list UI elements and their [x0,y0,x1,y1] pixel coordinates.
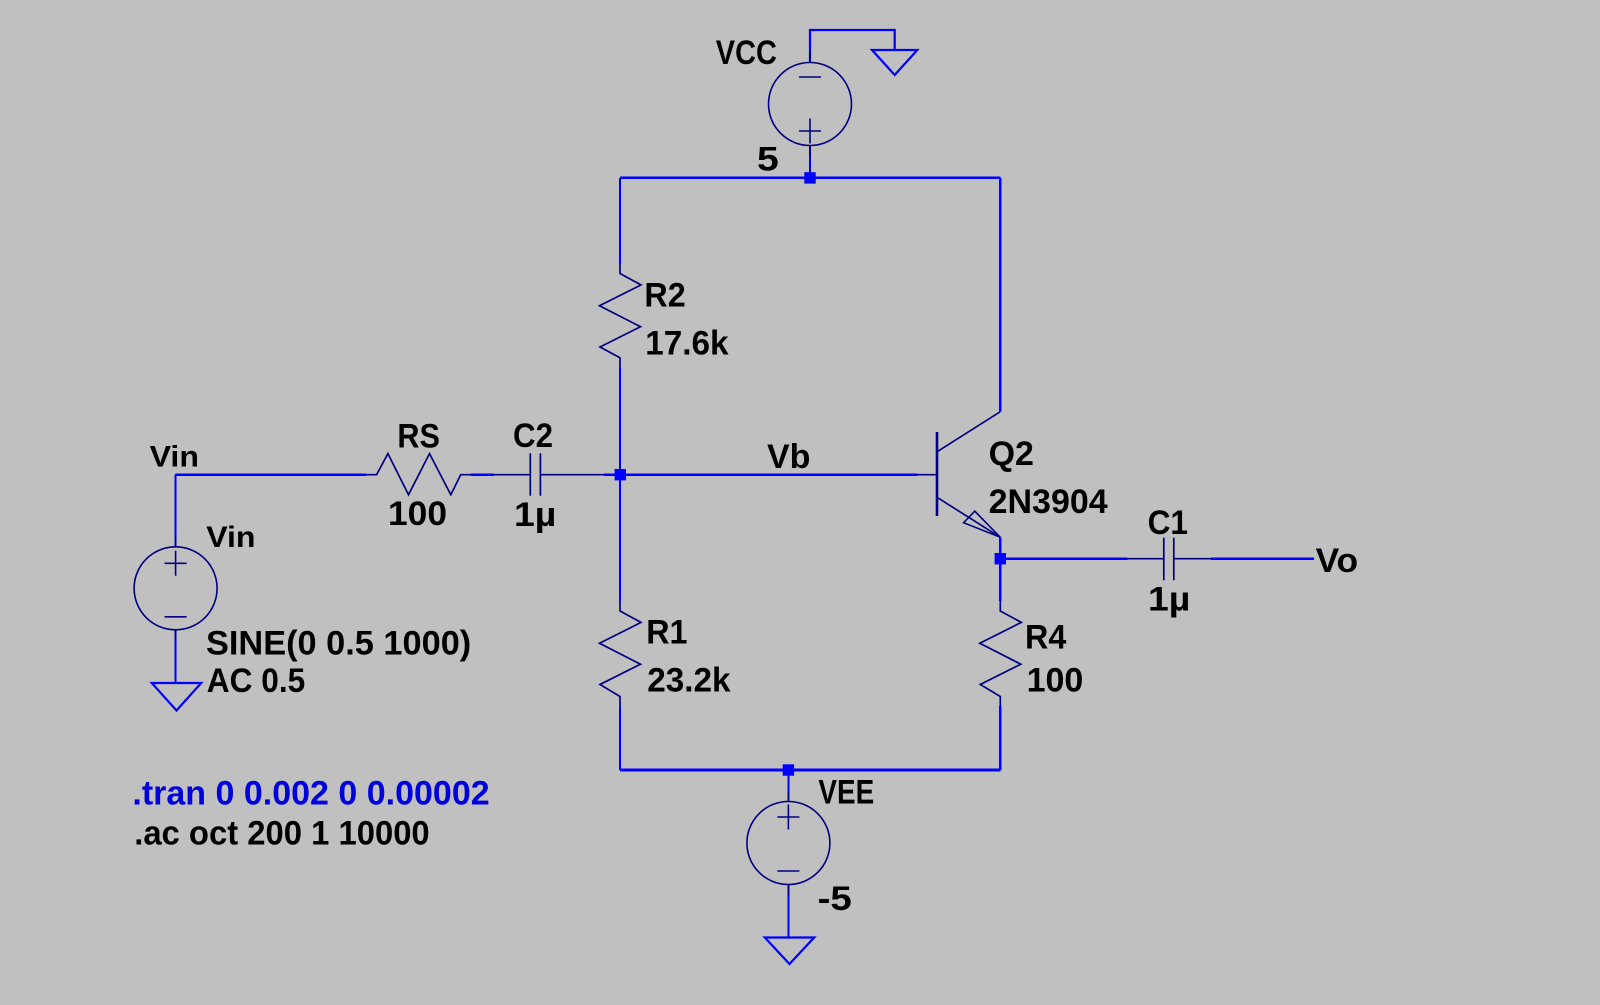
svg-text:Vin: Vin [150,439,199,473]
svg-text:.ac oct 200 1 10000: .ac oct 200 1 10000 [134,815,429,853]
svg-text:C1: C1 [1148,503,1188,541]
svg-text:.tran 0 0.002 0 0.00002: .tran 0 0.002 0 0.00002 [132,775,489,813]
ground below VEE source [765,938,814,965]
wire VEE to ground [787,885,789,938]
svg-text:AC 0.5: AC 0.5 [207,661,305,699]
node at C2/R2/R1 junction [615,469,626,480]
svg-text:Vin: Vin [206,520,255,554]
svg-text:Vb: Vb [767,438,810,476]
wire R1 bottom to bottom rail [619,706,621,770]
svg-text:1µ: 1µ [1148,580,1190,618]
node at VCC on top rail [804,172,815,183]
wire RS to C2 [471,473,494,476]
wire C1 to Vo [1211,557,1314,560]
wire top rail right down to collector [999,178,1001,412]
svg-text:Vo: Vo [1316,543,1359,580]
wire C2 to transistor base [604,473,918,476]
capacitor C2 [494,453,604,496]
svg-text:23.2k: 23.2k [647,662,731,699]
wire bottom rail [620,769,1000,772]
svg-text:R2: R2 [644,277,685,315]
wire top rail left down to R2 [619,178,621,264]
wire Vin node down to source [175,475,177,547]
wire VCC top to ground [810,30,895,63]
ground at VCC [872,50,917,75]
wire emitter to R4 [999,538,1001,601]
svg-text:1µ: 1µ [514,496,556,534]
svg-text:Q2: Q2 [989,435,1034,473]
svg-text:R4: R4 [1025,619,1067,657]
capacitor C1 [1128,538,1212,581]
resistor R2 [600,263,642,367]
svg-text:17.6k: 17.6k [645,325,729,362]
wire emitter node to C1 [1000,557,1127,560]
svg-text:100: 100 [1027,662,1084,700]
svg-text:SINE(0 0.5 1000): SINE(0 0.5 1000) [206,625,471,663]
wire top rail [620,177,1000,180]
svg-text:VCC: VCC [716,33,777,72]
svg-text:R1: R1 [646,614,687,652]
svg-text:VEE: VEE [818,773,874,811]
wire bottom rail to VEE [787,770,789,802]
wire Vin to RS [176,473,367,476]
wire Vin source to ground [175,630,177,683]
svg-text:2N3904: 2N3904 [989,483,1108,521]
wire R4 bottom to bottom rail [999,706,1001,770]
resistor RS [367,454,471,495]
node at VEE on bottom rail [783,764,794,775]
node at emitter output [995,553,1006,564]
svg-text:5: 5 [757,140,779,178]
svg-text:C2: C2 [513,416,553,455]
resistor R1 [600,601,642,706]
svg-text:100: 100 [388,496,447,533]
wire VCC to top rail [809,146,811,178]
resistor R4 [980,601,1022,706]
voltage source VEE [747,792,830,895]
svg-text:RS: RS [397,417,439,455]
voltage source VCC [769,53,852,156]
voltage source Vin [134,537,217,640]
transistor Q2 [918,412,1001,538]
wire R2 bottom to node Vb line [619,368,621,602]
ground below Vin source [152,683,201,711]
svg-text:-5: -5 [818,879,852,917]
